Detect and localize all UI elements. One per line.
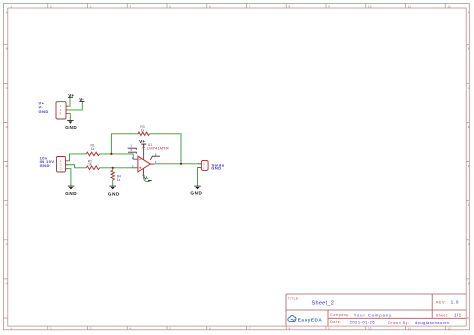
svg-text:GND: GND xyxy=(39,109,49,114)
svg-text:GND: GND xyxy=(211,166,221,171)
svg-text:V-: V- xyxy=(144,175,149,180)
svg-text:B: B xyxy=(468,47,470,51)
svg-text:10: 10 xyxy=(368,326,372,330)
svg-text:Sheet:: Sheet: xyxy=(436,313,449,317)
svg-text:B: B xyxy=(6,47,8,51)
svg-text:1.0: 1.0 xyxy=(451,300,459,305)
svg-text:GND: GND xyxy=(190,191,202,196)
svg-text:F: F xyxy=(468,203,470,207)
svg-text:TITLE:: TITLE: xyxy=(288,297,300,301)
svg-text:GND: GND xyxy=(65,191,77,196)
svg-text:Your Company: Your Company xyxy=(354,312,392,317)
svg-text:V+: V+ xyxy=(139,139,145,144)
svg-text:A: A xyxy=(6,10,8,14)
svg-text:2021-01-26: 2021-01-26 xyxy=(350,319,376,324)
svg-text:1k: 1k xyxy=(91,147,95,151)
svg-text:V-: V- xyxy=(79,97,84,102)
svg-text:Company:: Company: xyxy=(330,313,350,317)
svg-text:E: E xyxy=(468,164,470,168)
svg-text:10: 10 xyxy=(368,4,372,8)
svg-text:11: 11 xyxy=(408,4,411,8)
svg-text:GND: GND xyxy=(65,125,77,130)
svg-text:12: 12 xyxy=(448,4,452,8)
svg-text:1k: 1k xyxy=(141,129,145,133)
svg-text:Drawn By:: Drawn By: xyxy=(388,321,410,325)
svg-text:douglaschauren: douglaschauren xyxy=(415,320,450,325)
svg-text:12: 12 xyxy=(448,326,452,330)
svg-text:V+: V+ xyxy=(68,93,74,98)
svg-text:Date:: Date: xyxy=(330,320,342,324)
svg-text:E: E xyxy=(6,164,8,168)
svg-text:1k: 1k xyxy=(117,178,121,182)
svg-text:LM741MTR: LM741MTR xyxy=(147,147,170,151)
svg-text:1/1: 1/1 xyxy=(454,313,462,318)
svg-text:EasyEDA: EasyEDA xyxy=(298,317,323,322)
svg-text:GND: GND xyxy=(108,191,120,196)
svg-text:H: H xyxy=(6,281,8,285)
svg-text:U1: U1 xyxy=(148,143,153,147)
svg-text:F: F xyxy=(6,203,8,207)
svg-text:REV:: REV: xyxy=(436,301,447,305)
svg-text:GND: GND xyxy=(40,163,50,168)
svg-text:Sheet_2: Sheet_2 xyxy=(312,300,335,306)
svg-text:H: H xyxy=(468,281,470,285)
svg-text:A: A xyxy=(468,10,470,14)
svg-text:11: 11 xyxy=(408,326,411,330)
svg-text:1k: 1k xyxy=(88,163,92,167)
